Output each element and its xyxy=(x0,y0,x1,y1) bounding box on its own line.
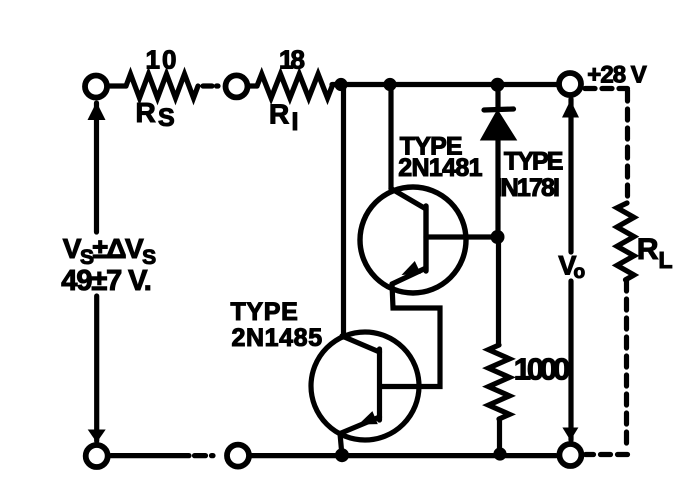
svg-text:R: R xyxy=(269,99,289,130)
svg-text:VS±ΔVS: VS±ΔVS xyxy=(63,233,156,269)
transistor Q2 2N1485 xyxy=(311,332,419,440)
svg-text:49±7 V.: 49±7 V. xyxy=(61,265,152,297)
wire dashed T3 to RL top xyxy=(585,86,628,91)
svg-text:TYPE: TYPE xyxy=(231,298,298,326)
junction node J6 xyxy=(335,448,349,462)
svg-text:R: R xyxy=(136,97,156,128)
svg-text:I: I xyxy=(292,108,299,136)
wire W1 Q2 collector to rail xyxy=(341,85,346,338)
junction node J5 xyxy=(493,447,506,460)
svg-text:18: 18 xyxy=(279,45,305,75)
resistor RS 10 ohm xyxy=(126,74,198,98)
diode D1 1N1781 cathode bar xyxy=(484,109,514,110)
wire bottom rail right xyxy=(250,453,556,458)
resistor RL xyxy=(617,203,634,280)
terminal T2 top-mid xyxy=(226,75,248,97)
wire T1 to RS xyxy=(110,83,126,88)
wire W2 Q1 collector to rail xyxy=(388,85,393,190)
junction node B xyxy=(491,230,505,244)
terminal T4 bottom-left xyxy=(86,445,108,467)
svg-text:2N1481: 2N1481 xyxy=(398,154,482,182)
wire node B to resistor 1000 xyxy=(496,237,501,345)
wire R2 to bottom rail xyxy=(497,419,502,456)
svg-text:1000: 1000 xyxy=(514,352,570,387)
junction node J2 xyxy=(383,78,396,91)
arrowhead Q2 emitter xyxy=(359,411,378,424)
wire top rail xyxy=(332,82,557,87)
svg-text:2N1485: 2N1485 xyxy=(232,324,323,352)
terminal T5 bottom-mid xyxy=(227,445,249,467)
junction node J3 xyxy=(491,78,505,92)
svg-text:R: R xyxy=(637,233,659,266)
wire Q2 emitter to bottom rail xyxy=(340,434,342,456)
terminal T1 top-left xyxy=(85,76,107,98)
arrowhead Vo up xyxy=(562,100,579,118)
arrowhead Vo down xyxy=(562,428,578,441)
svg-text:TYPE: TYPE xyxy=(504,148,564,176)
wire diode to node B xyxy=(495,139,500,237)
wire dash-dot RS to T2 xyxy=(203,83,218,88)
svg-text:S: S xyxy=(158,104,175,132)
terminal T6 bottom-right xyxy=(559,444,581,466)
wire T2 to R1 xyxy=(250,83,257,88)
svg-text:L: L xyxy=(659,247,673,273)
svg-text:+28 V: +28 V xyxy=(587,61,647,88)
arrowhead VS up xyxy=(88,102,106,120)
arrowhead Q1 emitter xyxy=(402,261,421,275)
wire dashed RL bottom to T6 xyxy=(624,280,629,446)
wire VS arrow line xyxy=(94,103,99,232)
transistor Q1 2N1481 xyxy=(360,187,466,293)
svg-text:o: o xyxy=(574,262,586,283)
wire Q1 emitter to Q2 base xyxy=(382,284,440,387)
resistor R1 18 ohm xyxy=(257,74,332,98)
wire bottom rail left dash-dot xyxy=(111,453,213,458)
terminal T3 +28V xyxy=(559,73,581,95)
resistor R2 1000 ohm xyxy=(489,345,510,419)
wire rail to diode xyxy=(495,85,500,109)
wire Q1 base to node B xyxy=(426,234,493,239)
diode D1 1N1781 anode triangle xyxy=(482,111,516,140)
arrowhead VS down xyxy=(88,430,106,443)
svg-text:IN178I: IN178I xyxy=(496,174,560,202)
junction node J1 xyxy=(334,78,347,91)
wire Vo arrow line xyxy=(568,99,573,252)
